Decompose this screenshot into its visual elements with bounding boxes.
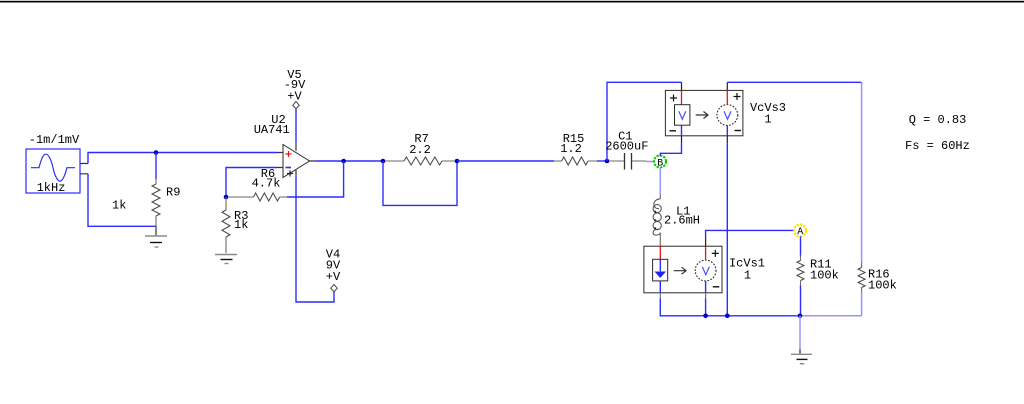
inductor L1 body coil — [653, 199, 661, 235]
ground symbol bottom right — [799, 350, 801, 354]
resistor R6 leads — [228, 196, 287, 198]
svg-text:2600uF: 2600uF — [605, 140, 648, 154]
IcVs1 current sensor blue arrow — [659, 259, 661, 271]
junction dot R3/R6 node — [224, 195, 229, 200]
resistor R15 leads — [554, 160, 597, 162]
op-amp U2 red plus (non-inverting) — [286, 151, 292, 157]
wire IcVs1 + terminal up to node A — [705, 239, 707, 247]
svg-text:2.6mH: 2.6mH — [664, 214, 700, 228]
svg-text:R9: R9 — [166, 186, 180, 200]
wire IcVs1 sensor bottom to bottom rail — [659, 293, 661, 299]
ground below R9 — [155, 226, 157, 235]
wire R11 bottom to rail — [800, 286, 802, 316]
svg-text:1k: 1k — [112, 199, 126, 213]
VcVs3 top pin stubs — [682, 82, 728, 90]
VcVs3 minus right — [735, 130, 742, 132]
svg-text:2.2: 2.2 — [409, 143, 431, 157]
wire C1 to node B (lavender) — [646, 161, 654, 163]
inductor L1 leads — [659, 194, 661, 246]
junction dot rail VcVs3 return — [725, 314, 730, 319]
svg-text:4.7k: 4.7k — [252, 177, 281, 191]
resistor R9 body — [152, 184, 160, 216]
resistor R15 body — [562, 157, 588, 165]
IcVs1 arrow — [674, 267, 686, 274]
svg-text:1.2: 1.2 — [560, 142, 582, 156]
wire IcVs1 circle bottom to bottom rail — [705, 293, 707, 299]
generator VG1 sine wave — [31, 154, 75, 181]
wire VcVs3 output bottom down to bottom rail — [726, 136, 728, 144]
svg-text:100k: 100k — [868, 279, 897, 293]
IcVs1 plus right — [712, 250, 719, 257]
resistor R16 leads — [861, 263, 863, 293]
VcVs3 sense square — [675, 105, 690, 126]
wire VcVs3 output top to R16 branch — [727, 81, 861, 83]
VcVs3 plus left — [670, 95, 677, 102]
capacitor C1 leads — [609, 160, 646, 162]
V5 terminal diamond — [293, 102, 299, 109]
svg-text:Q = 0.83: Q = 0.83 — [909, 113, 967, 127]
wire VcVs3 minus-left down to node B — [681, 136, 683, 144]
VcVs3 source circle — [717, 105, 738, 126]
op-amp U2 power pin stubs — [296, 143, 316, 175]
node B ring — [654, 156, 666, 168]
IcVs1 source circle V letter — [702, 267, 709, 275]
resistor R16 body — [858, 268, 865, 288]
wire R7 to R15 — [457, 160, 554, 162]
V4 terminal diamond — [331, 285, 337, 292]
IcVs1 blue wire circle bottom — [705, 281, 707, 293]
junction dot rail IcVs1 circle — [703, 314, 708, 319]
junction dot C1 left node — [605, 159, 610, 164]
svg-text:-1m/1mV: -1m/1mV — [29, 133, 80, 147]
resistor R6 body — [254, 193, 280, 201]
junction dot rail ground — [798, 314, 803, 319]
IcVs1 block outline — [644, 246, 722, 293]
VcVs3 source circle V letter — [724, 111, 731, 119]
wire: generator top to node, to op-amp + input — [88, 153, 277, 164]
junction dot at R9 top — [154, 150, 159, 155]
wire C1 node up to VcVs3 input + — [607, 82, 682, 161]
VcVs3 blue wire below square — [681, 125, 683, 136]
op-amp U2 input stubs — [277, 153, 283, 168]
wire rail down to ground (lavender) — [799, 316, 801, 350]
svg-text:100k: 100k — [810, 269, 839, 283]
resistor R9 leads — [155, 179, 157, 226]
generator VG1 pin stubs — [80, 164, 88, 174]
feedback wire to R6 — [287, 161, 344, 197]
op-amp U2 black plus (bottom) — [287, 171, 293, 177]
bottom rail wire — [706, 315, 801, 317]
wire: generator bottom to ground rail — [88, 174, 156, 227]
generator VG1 box — [26, 149, 80, 193]
resistor R3 leads — [225, 197, 227, 253]
VcVs3 minus left — [670, 130, 677, 132]
VcVs3 arrow — [696, 112, 708, 119]
VcVs3 block outline — [665, 90, 743, 135]
wire op-amp output — [316, 160, 383, 162]
wire node A down to R11 — [800, 236, 802, 255]
ground below R3 — [215, 254, 237, 256]
svg-text:UA741: UA741 — [254, 123, 290, 137]
VcVs3 plus right — [734, 93, 741, 100]
IcVs1 current sensor box — [653, 259, 668, 281]
resistor R11 body — [797, 261, 804, 281]
resistor R11 leads — [800, 256, 802, 286]
wire V5 to op-amp V+ pin — [295, 109, 297, 143]
VcVs3 red wire circle top — [726, 90, 728, 104]
IcVs1 red wire to current sensor — [659, 246, 661, 259]
op-amp U2 triangle — [283, 145, 310, 178]
IcVs1 blue wire below sensor — [659, 281, 661, 293]
IcVs1 minus right — [713, 286, 720, 288]
VcVs3 red wire to sense square — [681, 90, 683, 104]
resistor R9 top lead wire — [155, 153, 157, 180]
wire R16 branch vertical (lavender) — [861, 82, 863, 262]
svg-text:+V: +V — [326, 270, 341, 284]
VcVs3 blue wire circle bottom — [726, 125, 728, 135]
junction dot output/feedback — [341, 159, 346, 164]
top border line — [0, 1, 1024, 3]
svg-text:1: 1 — [744, 269, 751, 283]
capacitor C1 plates — [625, 153, 632, 170]
svg-text:+V: +V — [287, 90, 302, 104]
node A ring — [794, 224, 806, 236]
op-amp U2 blue minus dash — [286, 167, 292, 169]
junction dot R7 right — [455, 159, 460, 164]
IcVs1 red wire circle top — [705, 246, 707, 260]
VcVs3 sense square V letter — [679, 111, 686, 119]
wire R15 to C1 node — [597, 160, 607, 162]
IcVs1 source circle — [695, 260, 716, 281]
resistor R7 leads — [385, 160, 457, 162]
R7 bypass loop wire — [383, 161, 457, 205]
svg-text:1: 1 — [764, 113, 771, 127]
svg-text:Fs = 60Hz: Fs = 60Hz — [905, 139, 970, 153]
resistor R7 body — [404, 157, 442, 165]
svg-text:1kHz: 1kHz — [37, 181, 66, 195]
bottom rail right segment (lavender) — [801, 315, 862, 317]
resistor R3 body — [222, 210, 230, 237]
wire R16 bottom to rail (lavender) — [861, 293, 863, 316]
wire op-amp V- pin to V4 — [296, 175, 334, 302]
wire node B down to L1 (lavender) — [659, 168, 661, 195]
svg-text:1k: 1k — [234, 218, 248, 232]
junction dot R7 left — [381, 159, 386, 164]
wire: inverting input node (junction to op-amp minus input) — [226, 168, 277, 198]
